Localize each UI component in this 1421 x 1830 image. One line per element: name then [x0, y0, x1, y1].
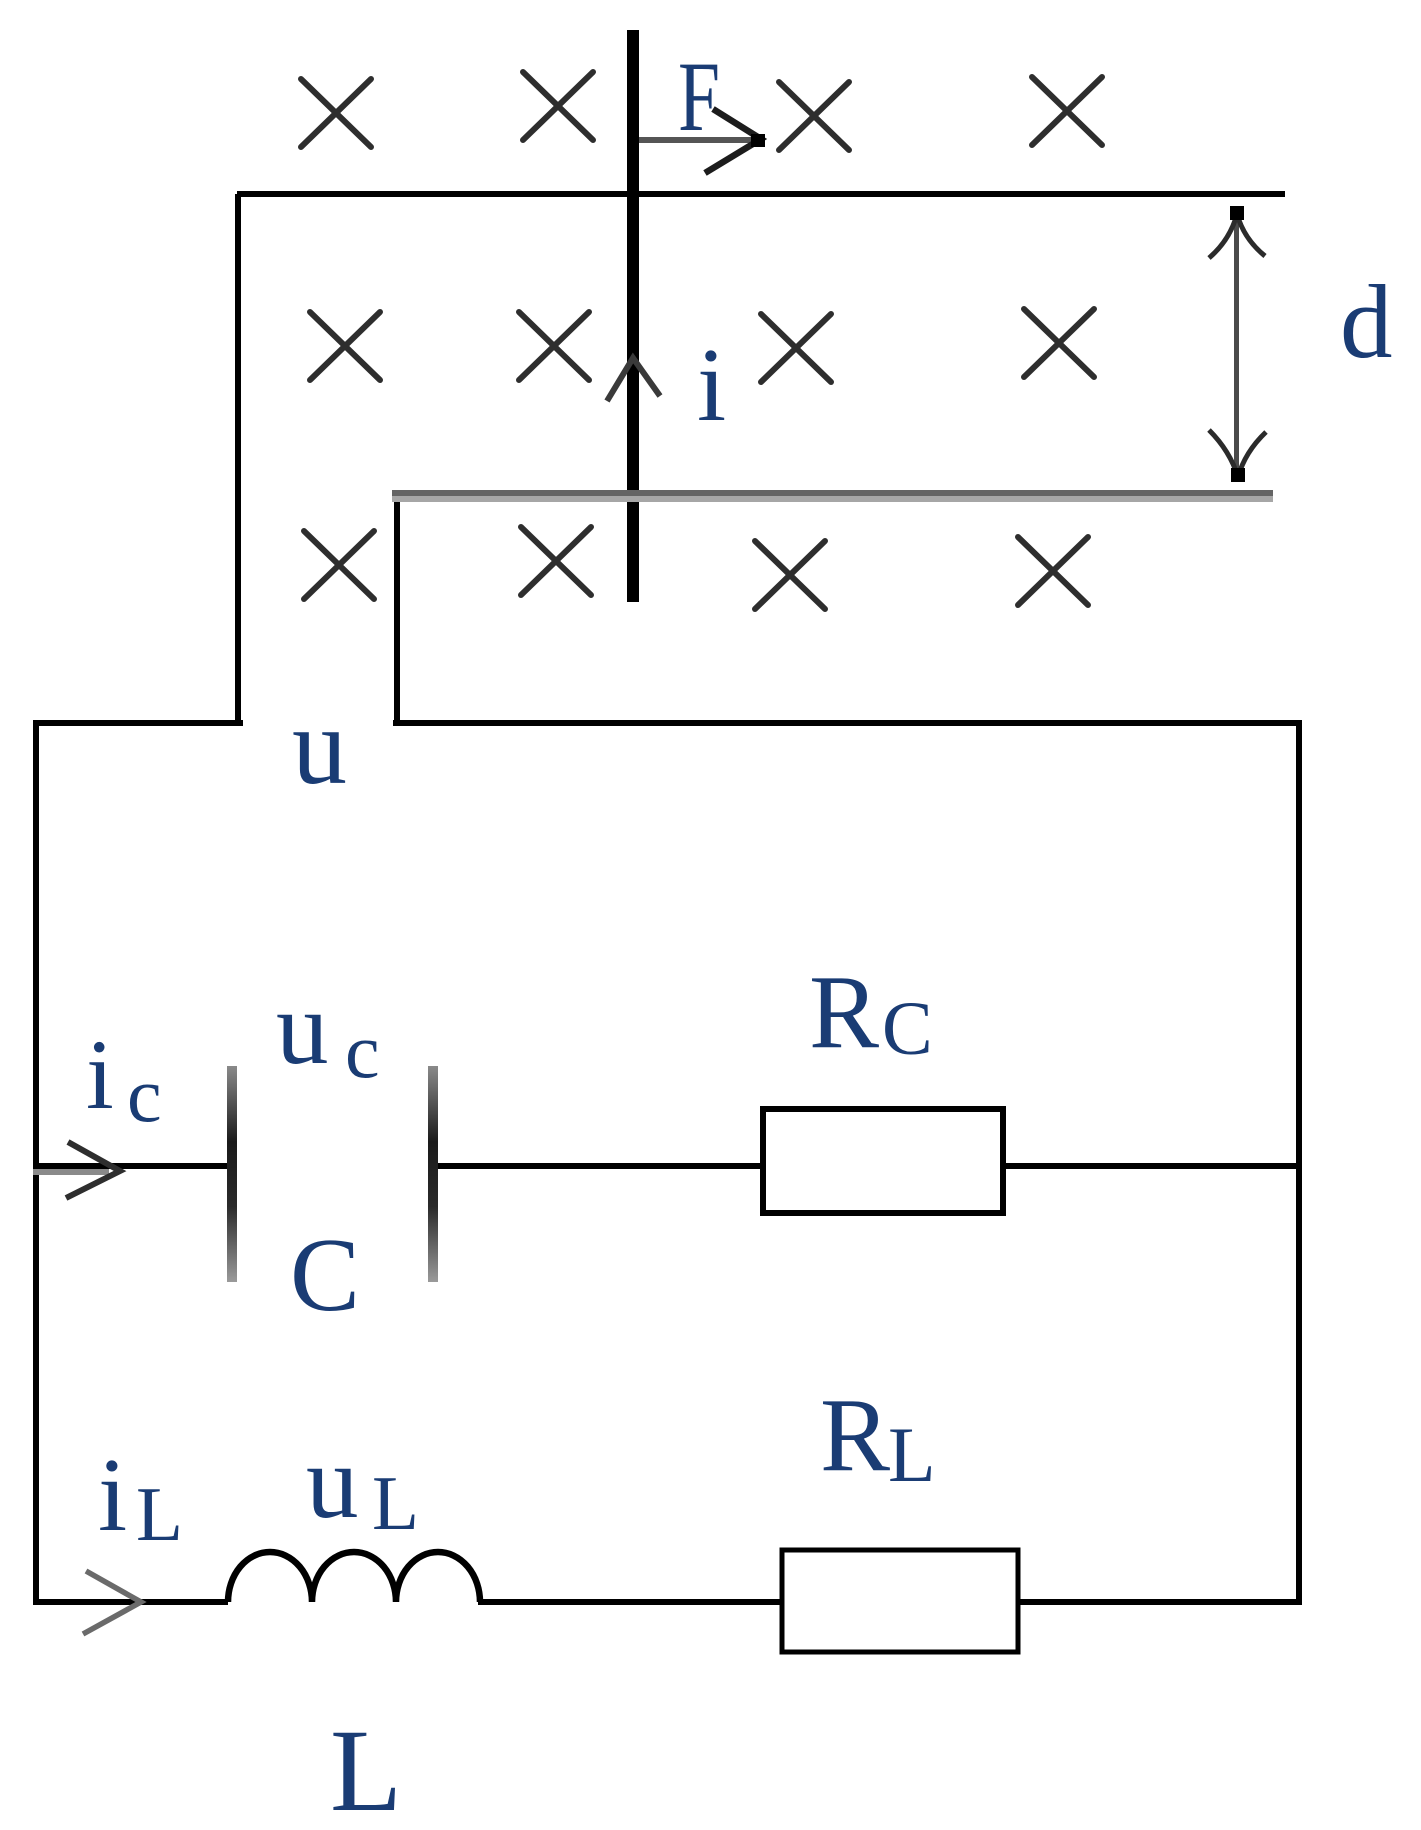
svg-text:i: i [697, 326, 726, 443]
svg-text:R: R [820, 1376, 890, 1493]
svg-text:i: i [98, 1436, 127, 1553]
svg-text:F: F [678, 41, 720, 152]
svg-text:R: R [809, 953, 879, 1070]
svg-text:C: C [290, 1216, 360, 1333]
svg-text:d: d [1340, 263, 1393, 380]
svg-text:L: L [372, 1460, 419, 1546]
svg-text:c: c [345, 1007, 380, 1094]
svg-text:c: c [127, 1051, 162, 1138]
svg-text:u: u [292, 685, 347, 807]
svg-text:i: i [86, 1019, 114, 1130]
svg-text:L: L [888, 1411, 936, 1498]
svg-text:L: L [136, 1471, 183, 1557]
svg-text:C: C [882, 987, 933, 1071]
svg-text:L: L [330, 1705, 402, 1830]
svg-text:u: u [276, 969, 329, 1086]
svg-text:u: u [306, 1423, 359, 1540]
